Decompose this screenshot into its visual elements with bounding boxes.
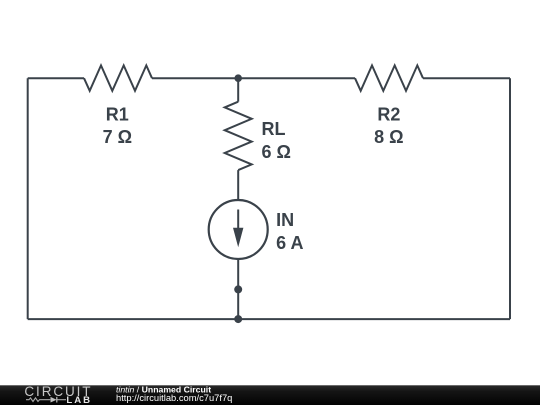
svg-text:LAB: LAB (66, 395, 92, 405)
footer bar (0, 385, 540, 405)
wire top middle (152, 77, 355, 79)
svg-text:6 A: 6 A (276, 233, 303, 253)
logo diode symbol (51, 397, 57, 403)
wire IN to bottom (237, 259, 239, 319)
logo resistor zigzag (26, 398, 50, 402)
svg-text:7 Ω: 7 Ω (103, 127, 132, 147)
resistor RL (225, 102, 252, 170)
wire right side (509, 78, 511, 319)
svg-text:8 Ω: 8 Ω (374, 127, 403, 147)
node C junction dot on bottom wire (234, 315, 242, 323)
node B junction dot (234, 285, 242, 293)
resistor R2 (355, 65, 423, 90)
current source IN arrowhead (233, 228, 243, 248)
wire bottom (28, 318, 510, 320)
current source IN body (209, 200, 268, 259)
wire top left (28, 77, 84, 79)
wire node A to RL (237, 78, 239, 102)
node A junction dot (234, 74, 242, 82)
wire RL to IN (237, 170, 239, 200)
svg-text:RL: RL (262, 119, 286, 139)
svg-text:IN: IN (276, 210, 294, 230)
svg-text:R2: R2 (377, 104, 400, 124)
svg-text:R1: R1 (106, 104, 129, 124)
svg-text:http://circuitlab.com/c7u7f7q: http://circuitlab.com/c7u7f7q (116, 393, 232, 403)
current source IN arrow shaft (237, 210, 239, 233)
svg-text:6 Ω: 6 Ω (262, 142, 291, 162)
wire left side (27, 78, 29, 319)
wire top right (423, 77, 510, 79)
resistor R1 (84, 65, 152, 90)
